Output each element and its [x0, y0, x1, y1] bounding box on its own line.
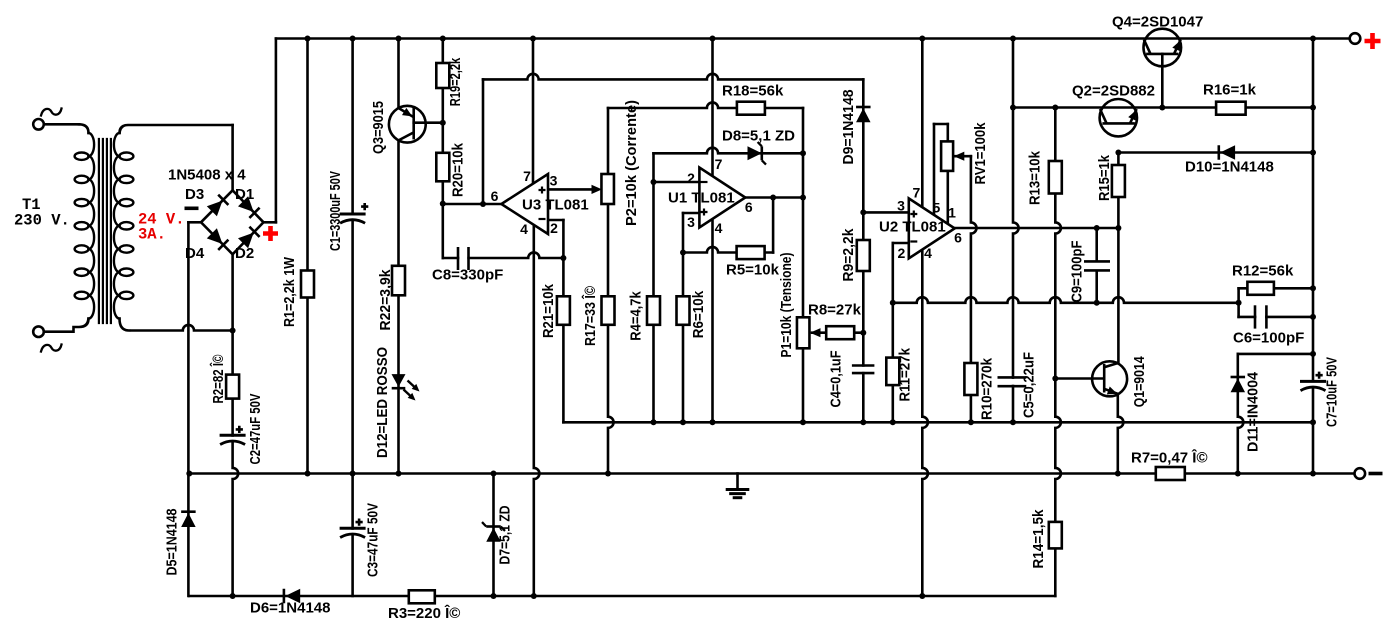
- svg-text:C3=47uF 50V: C3=47uF 50V: [365, 503, 382, 577]
- svg-text:C6=100pF: C6=100pF: [1233, 330, 1304, 347]
- svg-text:R10=270k: R10=270k: [979, 357, 996, 420]
- svg-text:1: 1: [948, 204, 956, 220]
- svg-text:4: 4: [520, 221, 528, 237]
- svg-text:7: 7: [523, 168, 531, 184]
- svg-text:D3: D3: [185, 186, 204, 203]
- svg-text:4: 4: [715, 220, 723, 236]
- svg-text:C5=0,22uF: C5=0,22uF: [1021, 352, 1038, 418]
- svg-text:3: 3: [687, 214, 695, 230]
- svg-text:C9=100pF: C9=100pF: [1069, 241, 1086, 303]
- svg-text:3: 3: [550, 173, 558, 189]
- svg-text:R21=10k: R21=10k: [540, 283, 557, 338]
- svg-text:6: 6: [491, 188, 499, 204]
- svg-text:D9=1N4148: D9=1N4148: [840, 90, 857, 165]
- svg-text:R18=56k: R18=56k: [722, 83, 784, 100]
- svg-text:R8=27k: R8=27k: [808, 302, 862, 319]
- svg-text:R15=1k: R15=1k: [1096, 154, 1113, 201]
- svg-text:R16=1k: R16=1k: [1203, 82, 1257, 99]
- svg-text:C1=3300uF 50V: C1=3300uF 50V: [327, 171, 344, 251]
- svg-text:R17=33 Î©: R17=33 Î©: [581, 286, 599, 346]
- svg-text:R4=4,7k: R4=4,7k: [628, 291, 645, 341]
- svg-text:D4: D4: [185, 245, 205, 262]
- svg-text:D5=1N4148: D5=1N4148: [164, 509, 181, 576]
- svg-text:U1 TL081: U1 TL081: [668, 190, 735, 207]
- svg-text:D1: D1: [235, 186, 254, 203]
- svg-text:R19=2,2k: R19=2,2k: [447, 57, 464, 106]
- svg-text:R3=220 Î©: R3=220 Î©: [388, 604, 460, 622]
- svg-text:R13=10k: R13=10k: [1027, 150, 1044, 205]
- svg-text:R22=3,9k: R22=3,9k: [377, 269, 394, 331]
- svg-text:D2: D2: [235, 245, 254, 262]
- svg-text:R5=10k: R5=10k: [726, 262, 780, 279]
- svg-text:6: 6: [745, 199, 753, 215]
- svg-text:C7=10uF 50V: C7=10uF 50V: [1324, 357, 1341, 427]
- svg-text:D11=IN4004: D11=IN4004: [1245, 371, 1262, 452]
- svg-text:P2=10k (Corrente): P2=10k (Corrente): [623, 100, 640, 226]
- svg-text:D7=5,1 ZD: D7=5,1 ZD: [497, 505, 514, 564]
- svg-text:U3 TL081: U3 TL081: [522, 197, 589, 214]
- svg-text:D8=5,1 ZD: D8=5,1 ZD: [722, 128, 795, 145]
- svg-text:R6=10k: R6=10k: [690, 290, 707, 338]
- svg-text:6: 6: [954, 229, 962, 245]
- svg-text:5: 5: [933, 199, 941, 215]
- svg-text:Q3=9015: Q3=9015: [370, 101, 387, 154]
- svg-text:D6=1N4148: D6=1N4148: [250, 600, 330, 617]
- svg-text:R11=27k: R11=27k: [897, 347, 914, 401]
- svg-text:U2 TL081: U2 TL081: [879, 219, 946, 236]
- svg-text:D10=1N4148: D10=1N4148: [1185, 159, 1274, 176]
- svg-text:R14=1,5k: R14=1,5k: [1030, 509, 1047, 569]
- svg-text:2: 2: [898, 245, 906, 261]
- svg-text:R1=2,2k 1W: R1=2,2k 1W: [281, 256, 298, 327]
- svg-text:R20=10k: R20=10k: [450, 142, 467, 197]
- svg-text:4: 4: [924, 245, 932, 261]
- svg-text:R12=56k: R12=56k: [1232, 263, 1294, 280]
- svg-text:Q2=2SD882: Q2=2SD882: [1072, 83, 1155, 100]
- svg-text:C8=330pF: C8=330pF: [432, 267, 503, 284]
- svg-text:7: 7: [715, 156, 723, 172]
- svg-text:C4=0,1uF: C4=0,1uF: [828, 351, 845, 408]
- svg-text:3: 3: [897, 198, 905, 214]
- svg-text:R9=2,2k: R9=2,2k: [840, 228, 857, 282]
- svg-text:Q4=2SD1047: Q4=2SD1047: [1112, 14, 1203, 31]
- svg-text:RV1=100k: RV1=100k: [972, 122, 989, 185]
- svg-text:2: 2: [550, 220, 558, 236]
- svg-text:3A.: 3A.: [138, 226, 166, 244]
- svg-text:P1=10k (Tensione): P1=10k (Tensione): [778, 253, 795, 358]
- svg-text:Q1=9014: Q1=9014: [1131, 356, 1148, 408]
- svg-text:D12=LED ROSSO: D12=LED ROSSO: [374, 347, 391, 458]
- svg-text:1N5408 x 4: 1N5408 x 4: [168, 167, 246, 184]
- svg-text:2: 2: [687, 170, 695, 186]
- svg-text:C2=47uF 50V: C2=47uF 50V: [247, 394, 264, 465]
- svg-text:R2=82 Î©: R2=82 Î©: [209, 355, 227, 404]
- svg-text:230 V.: 230 V.: [14, 212, 70, 230]
- svg-text:7: 7: [913, 184, 921, 200]
- svg-text:R7=0,47 Î©: R7=0,47 Î©: [1131, 449, 1208, 467]
